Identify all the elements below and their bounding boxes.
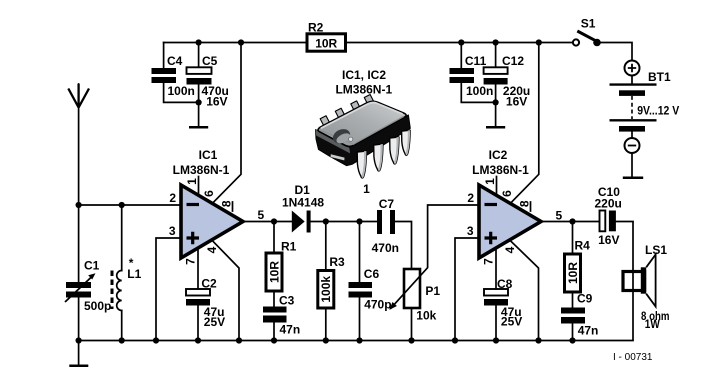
svg-text:4: 4 <box>205 246 219 253</box>
svg-text:16V: 16V <box>506 95 527 109</box>
svg-text:C7: C7 <box>379 197 395 211</box>
svg-text:1: 1 <box>185 178 199 185</box>
svg-text:2: 2 <box>467 191 474 205</box>
svg-text:500p: 500p <box>84 299 111 313</box>
svg-text:C5: C5 <box>202 54 218 68</box>
svg-text:8: 8 <box>517 200 531 207</box>
svg-text:BT1: BT1 <box>648 70 671 84</box>
svg-text:R4: R4 <box>575 239 591 253</box>
svg-text:IC1: IC1 <box>199 148 218 162</box>
svg-text:220u: 220u <box>595 197 622 211</box>
svg-text:IC2: IC2 <box>489 148 508 162</box>
svg-text:C3: C3 <box>279 293 295 307</box>
svg-text:25V: 25V <box>204 315 225 329</box>
svg-text:R2: R2 <box>308 21 324 35</box>
svg-text:7: 7 <box>481 258 495 265</box>
svg-text:16V: 16V <box>206 95 227 109</box>
svg-text:10R: 10R <box>315 37 337 51</box>
svg-text:4: 4 <box>503 246 517 253</box>
svg-text:1: 1 <box>363 182 370 196</box>
svg-text:C11: C11 <box>465 54 487 68</box>
svg-text:5: 5 <box>258 208 265 222</box>
svg-text:7: 7 <box>183 258 197 265</box>
svg-text:R1: R1 <box>281 239 297 253</box>
svg-text:LM386N-1: LM386N-1 <box>335 82 392 96</box>
svg-text:1: 1 <box>483 178 497 185</box>
svg-text:25V: 25V <box>501 315 522 329</box>
svg-text:5: 5 <box>556 208 563 222</box>
svg-text:IC1, IC2: IC1, IC2 <box>342 68 386 82</box>
svg-text:1N4148: 1N4148 <box>282 195 324 209</box>
svg-text:470n: 470n <box>372 241 399 255</box>
svg-text:L1: L1 <box>127 267 141 281</box>
svg-text:3: 3 <box>467 224 474 238</box>
svg-text:R3: R3 <box>329 255 345 269</box>
svg-text:C9: C9 <box>577 292 593 306</box>
svg-text:I - 00731: I - 00731 <box>613 352 653 363</box>
svg-text:470p: 470p <box>364 298 391 312</box>
svg-text:C12: C12 <box>502 54 524 68</box>
svg-text:C2: C2 <box>201 276 217 290</box>
svg-text:9V...12 V: 9V...12 V <box>637 104 679 118</box>
svg-text:6: 6 <box>500 190 514 197</box>
svg-text:LS1: LS1 <box>645 243 667 257</box>
svg-text:100k: 100k <box>319 276 333 303</box>
svg-text:C1: C1 <box>84 259 100 273</box>
svg-text:8: 8 <box>219 200 233 207</box>
svg-text:S1: S1 <box>581 16 596 30</box>
svg-text:3: 3 <box>169 224 176 238</box>
svg-text:47n: 47n <box>280 323 301 337</box>
svg-text:C6: C6 <box>364 267 380 281</box>
svg-text:100n: 100n <box>466 84 493 98</box>
svg-text:2: 2 <box>169 191 176 205</box>
svg-text:47n: 47n <box>578 323 599 337</box>
svg-text:LM386N-1: LM386N-1 <box>472 163 529 177</box>
svg-text:LM386N-1: LM386N-1 <box>173 163 230 177</box>
svg-text:100n: 100n <box>168 84 195 98</box>
svg-text:16V: 16V <box>598 233 619 247</box>
svg-text:6: 6 <box>202 190 216 197</box>
svg-text:10R: 10R <box>267 261 281 283</box>
svg-text:10k: 10k <box>416 308 436 322</box>
svg-text:10R: 10R <box>566 262 580 284</box>
svg-text:1W: 1W <box>645 317 661 331</box>
svg-text:P1: P1 <box>425 284 440 298</box>
svg-text:C4: C4 <box>167 54 183 68</box>
svg-text:C8: C8 <box>497 277 513 291</box>
